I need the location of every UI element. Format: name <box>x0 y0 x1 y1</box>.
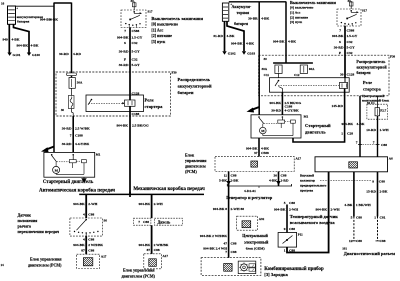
svg-text:Распределитель: Распределитель <box>178 77 211 82</box>
svg-text:Стартерный: Стартерный <box>305 123 331 128</box>
svg-text:C32: C32 <box>132 41 138 45</box>
svg-text:Дизель: Дизель <box>158 220 172 225</box>
svg-text:4-BK: 4-BK <box>288 40 296 44</box>
svg-text:2.5 W/BK: 2.5 W/BK <box>75 127 90 131</box>
svg-text:101: 101 <box>342 246 347 250</box>
ground G102 <box>222 51 226 54</box>
svg-text:C88: C88 <box>154 248 160 252</box>
svg-text:904-BK: 904-BK <box>270 101 282 105</box>
svg-text:G101: G101 <box>13 53 21 57</box>
svg-text:C88: C88 <box>88 212 94 216</box>
svg-text:7: 7 <box>138 220 140 224</box>
svg-text:двигатель: двигатель <box>305 130 326 135</box>
svg-text:Автоматическая коробка передач: Автоматическая коробка передач <box>39 188 115 193</box>
svg-text:батареи: батареи <box>178 90 194 95</box>
wire bus to starter 2 B+ <box>258 2 260 115</box>
svg-text:4-BK: 4-BK <box>344 203 352 207</box>
svg-text:G100: G100 <box>32 53 40 57</box>
svg-text:30: 30 <box>340 73 344 77</box>
svg-text:904-BK: 904-BK <box>17 44 29 48</box>
svg-text:всасываемого воздуха: всасываемого воздуха <box>290 220 336 225</box>
GEM module icon <box>242 221 251 228</box>
svg-text:[3] Зарядка: [3] Зарядка <box>264 272 288 277</box>
power distribution box 1 <box>56 72 171 116</box>
svg-text:87: 87 <box>81 248 85 252</box>
svg-text:(PCM): (PCM) <box>185 169 197 174</box>
instrument icon module <box>224 264 232 272</box>
wire fuse F1 to relay and pin <box>72 88 74 116</box>
ground G100 <box>27 53 31 56</box>
svg-text:2-WH 88: 2-WH 88 <box>231 207 245 211</box>
svg-text:4-BK: 4-BK <box>31 44 39 48</box>
svg-text:C32: C32 <box>347 40 353 44</box>
svg-text:C12: C12 <box>294 73 300 77</box>
svg-text:15-RD: 15-RD <box>366 189 376 193</box>
svg-text:стартера: стартера <box>363 87 382 92</box>
svg-text:Генератор и регулятор: Генератор и регулятор <box>226 195 273 200</box>
connector lug on fuse feed <box>67 73 77 76</box>
svg-text:904-BK 2 WH/BK: 904-BK 2 WH/BK <box>200 234 227 238</box>
wire battery B1 left leg to ground <box>8 24 10 52</box>
svg-text:Распределитель: Распределитель <box>356 59 386 64</box>
svg-text:[2] питание: [2] питание <box>290 15 309 19</box>
svg-text:30-RD: 30-RD <box>271 108 281 112</box>
svg-text:30-RD: 30-RD <box>62 127 72 131</box>
svg-text:1.5-GY: 1.5-GY <box>132 35 143 39</box>
svg-text:C88: C88 <box>380 239 386 243</box>
fuse F2 30A <box>275 65 282 73</box>
svg-text:9: 9 <box>372 179 374 183</box>
svg-text:Стартерный двигатель: Стартерный двигатель <box>43 180 94 185</box>
wire bus to starter B+ <box>53 3 55 153</box>
svg-text:1 BK/WH: 1 BK/WH <box>356 203 371 207</box>
fuse F3 <box>300 65 307 73</box>
svg-text:A6: A6 <box>389 157 393 161</box>
wire dist box to starter pin 50 <box>72 116 74 152</box>
svg-text:2-WH: 2-WH <box>331 208 340 212</box>
temp gauge loop wire <box>287 172 329 253</box>
svg-text:904-BK: 904-BK <box>139 202 151 206</box>
wire sensor to PCM <box>85 236 87 254</box>
svg-text:1: 1 <box>341 132 343 136</box>
svg-text:стартера: стартера <box>145 104 164 109</box>
wire relay K2 to starter pin 50 <box>281 92 283 115</box>
GEM module box <box>237 216 258 230</box>
svg-text:C28: C28 <box>347 132 353 136</box>
svg-text:4: 4 <box>83 212 85 216</box>
wire relay K2 coil to starter ground loop <box>293 89 345 143</box>
svg-text:11: 11 <box>224 173 228 177</box>
svg-text:30-BR: 30-BR <box>248 17 258 21</box>
svg-text:4-BK: 4-BK <box>261 146 269 150</box>
svg-text:[3] пуск: [3] пуск <box>290 20 303 24</box>
wire starter M2 to PCM right <box>258 138 260 157</box>
svg-text:C88: C88 <box>289 227 295 231</box>
svg-text:Выключатель зажигания: Выключатель зажигания <box>290 0 337 5</box>
junction box fuse F2.7 <box>375 108 380 116</box>
svg-text:4-BK: 4-BK <box>246 42 254 46</box>
arrowhead wire B at bracket <box>276 181 280 186</box>
ignition switch S1 contacts <box>125 11 142 28</box>
svg-text:C88: C88 <box>143 220 149 224</box>
svg-text:14: 14 <box>1 263 5 267</box>
svg-text:торная: торная <box>237 10 250 15</box>
svg-text:30-RD: 30-RD <box>334 45 344 49</box>
svg-text:87: 87 <box>147 248 151 252</box>
wire battery B1 positive to bus <box>16 5 55 7</box>
svg-text:Температурный датчик: Температурный датчик <box>290 214 339 219</box>
svg-text:904-BK: 904-BK <box>274 208 286 212</box>
starter relay K1 box <box>86 95 144 112</box>
connector C88 pins 7 7 <box>356 141 388 147</box>
svg-text:C128: C128 <box>132 92 140 96</box>
svg-text:C88: C88 <box>379 179 385 183</box>
combination instrument box <box>201 258 261 276</box>
ignition switch S2 connector <box>348 0 354 9</box>
wire junction box to GEM <box>377 116 379 157</box>
svg-text:[0] выключено: [0] выключено <box>290 6 314 10</box>
svg-text:37: 37 <box>254 151 258 155</box>
wire PCM right output B <box>278 172 280 187</box>
bus bar top right <box>229 1 286 3</box>
svg-text:Механическая коробка передач: Механическая коробка передач <box>133 187 205 192</box>
svg-text:C128: C128 <box>347 73 355 77</box>
svg-text:2.5 BK/OG: 2.5 BK/OG <box>132 123 149 127</box>
svg-text:двигателем (PCM): двигателем (PCM) <box>122 274 156 279</box>
svg-text:4-RD: 4-RD <box>73 52 81 56</box>
GEM output wire mid <box>353 172 355 217</box>
PCM center icon <box>149 259 157 267</box>
instrument gauges icon <box>249 264 255 271</box>
wire dist box to junction box <box>377 96 379 108</box>
svg-text:4-GY/BK: 4-GY/BK <box>285 108 299 112</box>
svg-text:2 WH/BK: 2 WH/BK <box>154 243 169 247</box>
svg-text:30: 30 <box>264 57 268 61</box>
svg-text:C88: C88 <box>281 173 287 177</box>
svg-text:Впускной: Впускной <box>300 174 314 178</box>
svg-text:30: 30 <box>61 108 65 112</box>
svg-text:коллектор: коллектор <box>300 179 315 183</box>
svg-text:двигателем: двигателем <box>185 163 206 168</box>
svg-text:904-BK: 904-BK <box>73 202 85 206</box>
svg-text:[0] выключено: [0] выключено <box>151 21 178 26</box>
svg-text:1.5-GY: 1.5-GY <box>347 34 358 38</box>
gear selector position sensor box <box>70 218 102 236</box>
svg-text:30: 30 <box>131 0 135 3</box>
temperature gauge box <box>278 233 297 248</box>
ground starter M1 <box>82 177 86 182</box>
svg-text:C188: C188 <box>75 134 83 138</box>
svg-text:Реле: Реле <box>363 80 372 85</box>
svg-text:904-BK: 904-BK <box>139 243 151 247</box>
svg-text:C81: C81 <box>380 215 386 219</box>
battery B1 <box>8 6 19 24</box>
wire battery B2 right leg to ground <box>227 21 244 51</box>
relay K2 internals <box>275 78 348 93</box>
off-page arrow right starter cable <box>251 107 260 110</box>
svg-text:1: 1 <box>284 249 286 253</box>
starter motor M2 box <box>251 115 301 138</box>
ignition switch S2 box <box>337 9 361 26</box>
ignition switch S1 connector <box>131 0 137 10</box>
svg-text:2-WH: 2-WH <box>88 202 97 206</box>
svg-text:[1] Acc: [1] Acc <box>151 27 163 32</box>
svg-text:60A: 60A <box>309 67 315 71</box>
arrowhead wire A at bracket <box>227 181 231 186</box>
wire dist box to GEM pin 7 <box>359 96 361 157</box>
svg-text:C88: C88 <box>231 250 237 254</box>
svg-text:30-RD: 30-RD <box>59 52 69 56</box>
svg-text:4-BK: 4-BK <box>227 34 235 38</box>
svg-text:C88: C88 <box>356 215 362 219</box>
fuse feed bar <box>273 62 313 64</box>
svg-text:[2] питание: [2] питание <box>151 33 172 38</box>
svg-text:30-RD: 30-RD <box>119 49 129 53</box>
svg-text:C188: C188 <box>132 112 140 116</box>
svg-text:батарея: батарея <box>234 21 249 26</box>
starter motor M2 internals <box>258 116 295 135</box>
svg-text:7: 7 <box>339 28 341 32</box>
svg-text:904-BK: 904-BK <box>273 40 285 44</box>
svg-text:4-BK: 4-BK <box>269 178 277 182</box>
svg-text:батареи: батареи <box>356 70 371 75</box>
svg-text:A17: A17 <box>101 255 107 259</box>
svg-text:145-RD: 145-RD <box>332 104 344 108</box>
GEM icon <box>349 162 358 168</box>
wire fuse F2 to relay K2 <box>278 73 280 77</box>
svg-text:16: 16 <box>1 2 5 6</box>
svg-text:A32: A32 <box>259 217 265 221</box>
svg-text:S: S <box>124 41 126 45</box>
svg-text:Блок управления: Блок управления <box>123 268 155 273</box>
svg-text:двигателем (PCM): двигателем (PCM) <box>28 263 62 268</box>
instrument inner box <box>238 261 256 274</box>
ignition switch S2 contacts <box>341 10 359 26</box>
svg-text:2-WH: 2-WH <box>289 208 298 212</box>
svg-text:31-RD: 31-RD <box>213 34 223 38</box>
starter motor M1 box <box>44 152 95 177</box>
generator connector bracket <box>227 184 291 186</box>
svg-text:G102: G102 <box>228 52 236 56</box>
svg-text:Датчик: Датчик <box>18 213 32 218</box>
svg-text:C32: C32 <box>132 57 138 61</box>
svg-text:C88: C88 <box>88 238 94 242</box>
svg-text:5-GY: 5-GY <box>132 49 141 53</box>
svg-text:C88: C88 <box>381 143 387 147</box>
svg-text:управления: управления <box>185 158 207 163</box>
svg-text:30 C1: 30 C1 <box>367 101 375 105</box>
svg-text:5: 5 <box>284 201 286 205</box>
svg-text:Диагностический разъем: Диагностический разъем <box>344 251 395 256</box>
svg-text:9: 9 <box>284 227 286 231</box>
wire battery B1 right leg to ground <box>14 24 30 52</box>
svg-text:прогрева: прогрева <box>300 189 314 193</box>
ground G101 <box>7 53 11 56</box>
svg-text:C88: C88 <box>356 239 362 243</box>
svg-text:аккумуляторная: аккумуляторная <box>17 15 43 19</box>
svg-text:аккумуляторной: аккумуляторной <box>178 84 212 89</box>
svg-text:C588: C588 <box>132 29 140 33</box>
wire PCM right output A <box>228 172 230 258</box>
power distribution box 2 <box>259 55 389 96</box>
svg-text:7: 7 <box>225 250 227 254</box>
svg-text:положения: положения <box>18 218 39 223</box>
svg-text:904-BK: 904-BK <box>316 208 328 212</box>
circuit breaker left in box <box>68 96 74 109</box>
battery B2 <box>222 3 232 22</box>
starter motor M1 internals <box>51 154 86 174</box>
diesel note box <box>154 218 182 225</box>
main wire ignition 2 down <box>344 26 346 78</box>
ignition switch S1 box <box>121 10 146 28</box>
bus bar top left <box>54 2 72 4</box>
svg-text:30-RD: 30-RD <box>119 63 129 67</box>
svg-text:2 WH/BK: 2 WH/BK <box>88 243 103 247</box>
svg-text:904-BK: 904-BK <box>117 35 129 39</box>
svg-text:Центральный: Центральный <box>242 233 268 238</box>
branch wire to manual connector <box>151 194 153 218</box>
svg-text:S17: S17 <box>362 9 367 13</box>
svg-text:Блок: Блок <box>185 152 195 157</box>
gear selector sensor contacts <box>74 219 99 236</box>
svg-text:30-RD: 30-RD <box>62 142 72 146</box>
svg-text:предварительного: предварительного <box>300 184 327 188</box>
svg-text:904-BK 2.4 WH: 904-BK 2.4 WH <box>203 246 227 250</box>
svg-text:30A: 30A <box>77 81 83 85</box>
svg-text:4-D2-61: 4-D2-61 <box>244 189 256 193</box>
svg-text:4-BK: 4-BK <box>261 17 269 21</box>
transmission split line <box>79 193 204 195</box>
svg-text:30: 30 <box>348 0 352 3</box>
PCM left icon <box>83 258 92 266</box>
svg-text:[1] Acc: [1] Acc <box>290 10 301 14</box>
BOTTOM <box>185 152 395 277</box>
svg-text:Центральный: Центральный <box>362 94 384 98</box>
central junction box <box>367 104 388 119</box>
temp gauge wire upper <box>286 205 288 233</box>
wire bus to dist box 2 <box>285 2 287 64</box>
svg-text:C88: C88 <box>231 241 237 245</box>
relay K1 internals <box>88 95 135 112</box>
svg-text:аккумуляторной: аккумуляторной <box>356 64 387 69</box>
svg-text:M1: M1 <box>96 153 101 157</box>
svg-text:F2.7: F2.7 <box>380 109 386 113</box>
svg-text:10-RD: 10-RD <box>366 128 376 132</box>
svg-text:904-BK: 904-BK <box>342 122 354 126</box>
svg-text:4-BK: 4-BK <box>12 38 20 42</box>
PCM box left <box>77 254 100 268</box>
svg-text:904-BK: 904-BK <box>231 42 243 46</box>
svg-text:C88: C88 <box>88 248 94 252</box>
instrument gear icon <box>239 263 248 272</box>
PCM right icon <box>251 161 258 167</box>
svg-text:F30: F30 <box>390 55 396 59</box>
svg-text:+: + <box>16 7 18 11</box>
svg-text:F: F <box>124 57 126 61</box>
svg-text:5-BK: 5-BK <box>219 178 227 182</box>
svg-text:5-GY: 5-GY <box>132 63 141 67</box>
wire battery B2 left leg to ground <box>224 21 226 51</box>
svg-text:электронный: электронный <box>244 240 269 245</box>
svg-text:2-BK: 2-BK <box>380 189 388 193</box>
svg-text:5-GY: 5-GY <box>347 45 356 49</box>
svg-text:S17: S17 <box>148 10 153 14</box>
caption dashed line to pin 9 <box>320 180 371 182</box>
PCM box center <box>144 254 162 269</box>
svg-text:949: 949 <box>3 38 9 42</box>
svg-text:M1: M1 <box>304 115 309 119</box>
svg-text:C88: C88 <box>289 201 295 205</box>
RIGHT CIRCUIT <box>213 0 395 157</box>
svg-text:Аккумуля-: Аккумуля- <box>232 4 252 9</box>
svg-text:30: 30 <box>274 173 278 177</box>
svg-text:1: 1 <box>374 215 376 219</box>
svg-text:блок (GEM): блок (GEM) <box>246 247 266 251</box>
svg-text:A17: A17 <box>296 157 302 161</box>
svg-text:F30: F30 <box>172 71 178 75</box>
starter relay K2 box <box>270 78 350 93</box>
wire bus to fuse F1 <box>71 3 73 78</box>
svg-text:904-BK: 904-BK <box>332 34 344 38</box>
svg-text:Реле: Реле <box>145 98 154 103</box>
svg-text:30A: 30A <box>262 67 268 71</box>
svg-text:1-RD: 1-RD <box>281 178 289 182</box>
svg-text:Блок управления: Блок управления <box>30 257 62 262</box>
svg-text:47: 47 <box>224 241 228 245</box>
svg-text:Выключатель зажигания: Выключатель зажигания <box>151 16 203 21</box>
temperature gauge needle <box>283 236 293 244</box>
svg-text:C32: C32 <box>347 51 353 55</box>
svg-text:C588: C588 <box>347 28 355 32</box>
wire connector to PCM center <box>151 225 153 254</box>
connector 7 C88 box <box>133 218 151 225</box>
svg-text:4: 4 <box>83 238 85 242</box>
GEM output wire right <box>377 172 379 217</box>
svg-text:G103: G103 <box>247 52 255 56</box>
svg-text:C588: C588 <box>261 151 269 155</box>
ground G103 <box>242 51 246 54</box>
svg-text:рычага: рычага <box>18 224 31 229</box>
off-page arrow left starter cable <box>45 147 54 151</box>
svg-text:7: 7 <box>356 141 358 145</box>
svg-text:2-WH: 2-WH <box>154 202 163 206</box>
svg-text:904-BK: 904-BK <box>73 243 85 247</box>
svg-text:904-BK: 904-BK <box>117 123 129 127</box>
branch wire to gear selector sensor <box>85 194 87 218</box>
main wire ignition to split <box>129 28 131 195</box>
svg-text:C88: C88 <box>231 173 237 177</box>
svg-text:переключения передач: переключения передач <box>18 229 60 234</box>
svg-text:батарея: батарея <box>17 20 29 24</box>
svg-text:P11: P11 <box>298 233 303 237</box>
svg-text:[3] пуск: [3] пуск <box>151 39 166 44</box>
svg-text:1-WH: 1-WH <box>380 128 389 132</box>
svg-text:5: 5 <box>351 215 353 219</box>
svg-text:2-BK: 2-BK <box>231 178 239 182</box>
svg-text:7: 7 <box>124 29 126 33</box>
svg-text:S6: S6 <box>104 219 108 223</box>
svg-text:F: F <box>339 51 341 55</box>
GEM box right <box>315 157 388 172</box>
svg-text:7: 7 <box>70 134 72 138</box>
svg-text:7: 7 <box>373 141 375 145</box>
svg-text:A17: A17 <box>163 254 169 258</box>
PCM box right <box>215 157 294 172</box>
svg-text:C11: C11 <box>264 73 270 77</box>
svg-text:S: S <box>339 40 341 44</box>
fuse F1 30A <box>69 78 75 89</box>
svg-text:904-BK 8: 904-BK 8 <box>213 207 227 211</box>
